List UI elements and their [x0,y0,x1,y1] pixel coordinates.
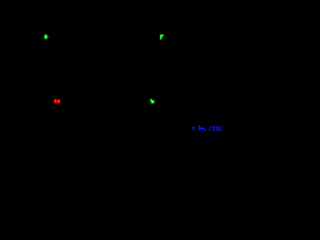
slash [208,126,212,131]
word [199,125,200,130]
glyph X [192,127,195,131]
green blob bottom-right (mitten) [150,99,154,104]
green blob top-left [44,34,48,39]
digits 20 [213,126,215,127]
trailing glyphs [219,126,220,130]
blue watermark text bottom-right [192,125,223,131]
red blob bottom-left [54,99,60,103]
green blob top-right (P shape) [160,34,164,39]
